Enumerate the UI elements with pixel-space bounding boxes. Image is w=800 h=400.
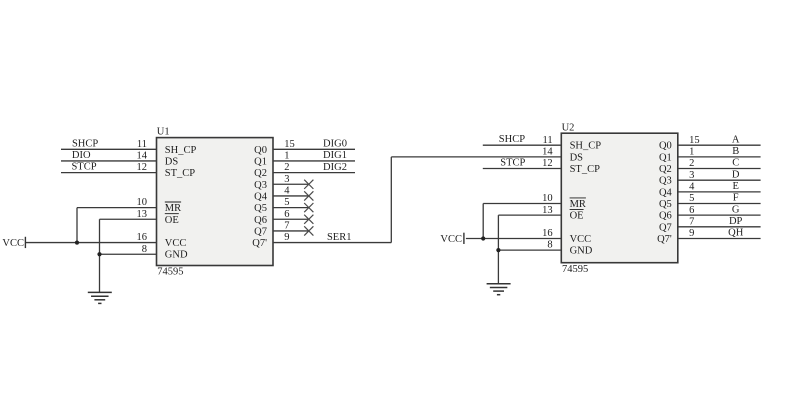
wire U1 Q1 to net DIG1	[273, 160, 355, 162]
wire SER1 to U2 DS pin 14	[391, 156, 561, 158]
svg-text:15: 15	[689, 135, 700, 146]
svg-text:Q4: Q4	[659, 187, 673, 198]
svg-text:U2: U2	[562, 122, 575, 133]
junction U1 OE-GND	[97, 252, 101, 256]
svg-text:SH_CP: SH_CP	[570, 141, 602, 152]
svg-text:D: D	[732, 169, 740, 180]
svg-text:13: 13	[542, 205, 553, 216]
svg-text:12: 12	[137, 162, 148, 173]
svg-text:11: 11	[137, 139, 147, 150]
wire U1 Q6 no-connect stub	[273, 218, 309, 220]
svg-text:7: 7	[284, 221, 289, 232]
svg-text:10: 10	[137, 197, 148, 208]
wire U2 output row 3 to net D	[678, 179, 761, 181]
svg-text:5: 5	[284, 197, 289, 208]
svg-text:SH_CP: SH_CP	[165, 145, 197, 156]
wire U2 OE/GND to ground vertical	[497, 215, 499, 284]
no-connect X on U1 Q3	[304, 180, 313, 189]
no-connect X on U1 Q5	[304, 203, 313, 212]
ground symbol (U2)	[487, 284, 511, 295]
wire U2 OE stub	[498, 214, 561, 216]
svg-text:Q4: Q4	[254, 191, 268, 202]
svg-text:MR: MR	[570, 199, 586, 210]
svg-text:16: 16	[542, 228, 553, 239]
wire U1 OE stub	[100, 218, 157, 220]
wire net SHCP to U1 pin 11	[61, 148, 157, 150]
svg-text:9: 9	[284, 232, 289, 243]
svg-text:Q0: Q0	[659, 141, 672, 152]
svg-text:MR: MR	[165, 203, 181, 214]
U1 MR overline	[165, 201, 181, 203]
svg-text:16: 16	[137, 232, 148, 243]
svg-text:Q1: Q1	[254, 156, 267, 167]
U1 OE overline	[165, 213, 179, 215]
wire SER1 vertical riser	[390, 157, 392, 243]
no-connect X on U1 Q4	[304, 191, 313, 200]
wire SER1 horizontal from U1 Q7'	[273, 242, 391, 244]
svg-text:Q6: Q6	[659, 211, 672, 222]
wire VCC rail to U2 pin 16	[466, 237, 561, 239]
wire U2 GND stub	[498, 249, 561, 251]
svg-text:14: 14	[137, 151, 148, 162]
svg-text:74595: 74595	[157, 267, 183, 278]
svg-text:DS: DS	[570, 152, 584, 163]
svg-text:F: F	[733, 193, 739, 204]
svg-text:SHCP: SHCP	[72, 138, 98, 149]
svg-text:STCP: STCP	[71, 162, 96, 173]
svg-text:VCC: VCC	[2, 238, 24, 249]
svg-text:VCC: VCC	[440, 234, 462, 245]
op-amp U2 body (74595 shift register box)	[561, 133, 678, 263]
wire U1 Q4 no-connect stub	[273, 195, 309, 197]
svg-text:ST_CP: ST_CP	[165, 168, 196, 179]
U2 MR overline	[570, 197, 586, 199]
svg-text:15: 15	[284, 139, 295, 150]
svg-text:11: 11	[542, 135, 552, 146]
no-connect X on U1 Q7	[304, 226, 313, 235]
svg-text:Q3: Q3	[659, 176, 672, 187]
svg-text:4: 4	[284, 186, 290, 197]
svg-text:QH: QH	[728, 228, 744, 239]
U2 OE overline	[570, 209, 584, 211]
svg-text:OE: OE	[570, 211, 584, 222]
svg-text:Q6: Q6	[254, 215, 267, 226]
no-connect X on U1 Q6	[304, 215, 313, 224]
svg-text:4: 4	[689, 181, 695, 192]
svg-text:SHCP: SHCP	[499, 134, 525, 145]
svg-text:DIG2: DIG2	[323, 162, 347, 173]
svg-text:Q0: Q0	[254, 145, 267, 156]
wire U1 Q2 to net DIG2	[273, 172, 355, 174]
svg-text:STCP: STCP	[500, 158, 525, 169]
svg-text:Q7': Q7'	[657, 234, 672, 245]
svg-text:Q7: Q7	[254, 226, 267, 237]
wire U1 Q7 no-connect stub	[273, 230, 309, 232]
wire U2 output row 5 to net F	[678, 203, 761, 205]
svg-text:2: 2	[284, 162, 289, 173]
svg-text:2: 2	[689, 158, 694, 169]
ground symbol (U1)	[88, 292, 112, 303]
svg-text:Q2: Q2	[659, 164, 672, 175]
svg-text:6: 6	[689, 205, 694, 216]
svg-text:Q3: Q3	[254, 180, 267, 191]
svg-text:1: 1	[689, 146, 694, 157]
svg-text:8: 8	[547, 240, 552, 251]
wire U2 output row 7 to net DP	[678, 226, 761, 228]
svg-text:6: 6	[284, 209, 289, 220]
wire net STCP to U2 pin 12	[483, 168, 562, 170]
VCC terminal tick	[24, 237, 26, 248]
svg-text:VCC: VCC	[165, 238, 187, 249]
svg-text:OE: OE	[165, 215, 179, 226]
svg-text:Q5: Q5	[659, 199, 672, 210]
wire U1 OE/GND to ground vertical	[99, 219, 101, 292]
wire U1 MR to VCC vertical	[76, 208, 78, 243]
junction U1 MR-VCC	[75, 240, 79, 244]
svg-text:1: 1	[284, 151, 289, 162]
svg-text:Q7: Q7	[659, 222, 672, 233]
op-amp U1 body (74595 shift register box)	[157, 138, 274, 266]
svg-text:Q7': Q7'	[252, 238, 267, 249]
svg-text:ST_CP: ST_CP	[570, 164, 601, 175]
svg-text:DIG1: DIG1	[323, 150, 347, 161]
svg-text:5: 5	[689, 193, 694, 204]
wire VCC rail to U1 pin 16	[26, 242, 157, 244]
svg-text:U1: U1	[157, 127, 170, 138]
svg-text:A: A	[732, 134, 740, 145]
svg-text:C: C	[732, 158, 739, 169]
svg-text:B: B	[732, 146, 739, 157]
wire U2 output row 0 to net A	[678, 144, 761, 146]
wire U2 output row 6 to net G	[678, 214, 761, 216]
svg-text:74595: 74595	[562, 264, 588, 275]
wire U1 Q3 no-connect stub	[273, 183, 309, 185]
wire U2 MR to VCC vertical	[482, 204, 484, 239]
svg-text:DIG0: DIG0	[323, 139, 347, 150]
wire U1 MR stub	[77, 207, 157, 209]
wire U1 GND stub	[100, 253, 157, 255]
wire U2 output row 2 to net C	[678, 168, 761, 170]
junction U2 MR-VCC	[481, 236, 485, 240]
svg-text:13: 13	[137, 209, 148, 220]
svg-text:8: 8	[142, 244, 147, 255]
junction U2 OE-GND	[496, 248, 500, 252]
svg-text:DIO: DIO	[72, 150, 91, 161]
wire U2 output row 8 to net QH	[678, 237, 761, 239]
svg-text:SER1: SER1	[327, 232, 352, 243]
wire U1 Q5 no-connect stub	[273, 207, 309, 209]
svg-text:E: E	[732, 181, 738, 192]
wire U1 Q0 to net DIG0	[273, 148, 355, 150]
svg-text:GND: GND	[570, 246, 593, 257]
svg-text:DP: DP	[729, 216, 743, 227]
svg-text:3: 3	[284, 174, 289, 185]
svg-text:G: G	[732, 204, 740, 215]
VCC terminal tick (U2)	[463, 233, 465, 244]
svg-text:9: 9	[689, 228, 694, 239]
svg-text:Q2: Q2	[254, 168, 267, 179]
wire U2 output row 1 to net B	[678, 156, 761, 158]
wire net SHCP to U2 pin 11	[483, 144, 562, 146]
svg-text:VCC: VCC	[570, 234, 592, 245]
wire net STCP to U1 pin 12	[61, 172, 157, 174]
svg-text:GND: GND	[165, 250, 188, 261]
svg-text:DS: DS	[165, 156, 179, 167]
svg-text:12: 12	[542, 158, 553, 169]
svg-text:Q1: Q1	[659, 152, 672, 163]
svg-text:3: 3	[689, 170, 694, 181]
wire U2 MR stub	[483, 203, 561, 205]
wire U2 output row 4 to net E	[678, 191, 761, 193]
svg-text:7: 7	[689, 216, 694, 227]
wire net DIO to U1 pin 14	[61, 160, 157, 162]
svg-text:14: 14	[542, 146, 553, 157]
svg-text:10: 10	[542, 193, 553, 204]
svg-text:Q5: Q5	[254, 203, 267, 214]
